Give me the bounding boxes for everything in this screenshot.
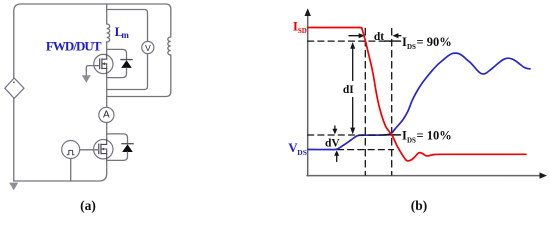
wire diode D1 loop bottom — [107, 68, 127, 78]
wire pulse source bottom lead — [70, 159, 72, 182]
mosfet M2 body contact — [101, 149, 107, 154]
diode D1 cathode bar — [121, 59, 132, 61]
svg-text:DS: DS — [297, 148, 307, 157]
dV lower arrow — [336, 156, 338, 162]
dashed level line VDS — [338, 149, 394, 151]
wire diode D2 loop top — [107, 134, 128, 144]
dashed vertical line at 10 percent crossing — [391, 29, 393, 176]
svg-text:DS: DS — [407, 43, 416, 51]
mosfet M1 drain contact — [102, 58, 107, 60]
mosfet M2 drain contact — [101, 143, 107, 145]
gate drive arrow M1 — [82, 75, 91, 83]
svg-text:(b): (b) — [411, 198, 428, 213]
diode D1 triangle — [121, 60, 132, 68]
wire diode D2 loop bottom — [107, 152, 128, 160]
wire right branch lower — [107, 55, 171, 97]
mosfet M1 channel bar — [101, 59, 103, 69]
blue curve VDS — [308, 53, 530, 150]
dashed vertical line at 90 percent crossing — [364, 29, 366, 176]
red curve ISD — [308, 28, 526, 161]
svg-text:(a): (a) — [80, 198, 96, 213]
svg-text:DS: DS — [407, 136, 416, 144]
dt right arrow — [397, 35, 401, 37]
wire M1 gate lead — [86, 66, 99, 75]
wire pulse source to M2 gate — [80, 149, 99, 151]
y axis arrowhead — [305, 8, 311, 16]
mosfet M2 drain-source through wire — [106, 139, 108, 160]
tick at 10 percent — [385, 134, 401, 136]
mosfet M2 gate bar — [98, 144, 100, 154]
dashed level line 10 percent — [308, 134, 384, 136]
ground arrow bottom left — [9, 183, 18, 191]
dt left arrow — [349, 35, 360, 37]
wire ammeter to M2 — [106, 123, 108, 140]
svg-text:FWD/DUT: FWD/DUT — [46, 39, 102, 54]
diode D2 triangle — [122, 144, 133, 152]
wire voltmeter bottom lead — [107, 54, 148, 90]
svg-text:SD: SD — [298, 27, 307, 35]
diode D2 cathode bar — [122, 143, 133, 145]
svg-text:dI: dI — [343, 84, 354, 96]
mosfet M2 body arrow — [101, 148, 104, 151]
tick at 90 percent — [385, 40, 401, 42]
wire main vertical top — [106, 4, 108, 24]
pulse source waveform glyph — [67, 150, 74, 154]
wire voltmeter top lead — [107, 10, 148, 42]
dV upper arrow — [334, 126, 336, 130]
mosfet M2 channel bar — [100, 144, 102, 154]
mosfet M2 circle — [94, 140, 113, 159]
svg-text:m: m — [121, 30, 129, 40]
current source polarity dot — [13, 82, 15, 84]
mosfet M2 source contact — [101, 153, 107, 155]
inductor Lm — [107, 24, 110, 42]
svg-text:V: V — [145, 43, 151, 53]
pulse source VG circle — [62, 141, 80, 159]
svg-text:A: A — [103, 109, 110, 120]
mosfet M1 drain-source through wire — [106, 55, 108, 74]
wire bottom rail — [14, 160, 107, 181]
mosfet M1 body contact — [102, 64, 107, 69]
wire left branch lower — [13, 98, 15, 181]
mosfet M1 circle — [94, 54, 113, 73]
mosfet M1 gate bar — [99, 59, 101, 69]
x axis arrowhead — [540, 172, 548, 178]
current source I1 diamond — [5, 78, 24, 98]
x axis — [307, 175, 542, 177]
svg-text:= 90%: = 90% — [417, 35, 452, 49]
wire diode D1 loop top — [107, 49, 127, 59]
svg-text:dt: dt — [374, 31, 384, 43]
svg-text:= 10%: = 10% — [417, 129, 452, 143]
wire main vertical middle — [106, 42, 108, 107]
inductor right branch — [168, 37, 171, 55]
dI measure arrow — [352, 47, 354, 130]
wire top rail with left and right drops — [14, 4, 171, 78]
mosfet M1 body arrow — [102, 62, 105, 65]
dashed level line 90 percent — [308, 40, 392, 42]
voltmeter V — [142, 41, 154, 53]
ammeter A — [99, 107, 114, 122]
mosfet M1 source contact — [102, 67, 107, 69]
y axis — [307, 14, 309, 176]
